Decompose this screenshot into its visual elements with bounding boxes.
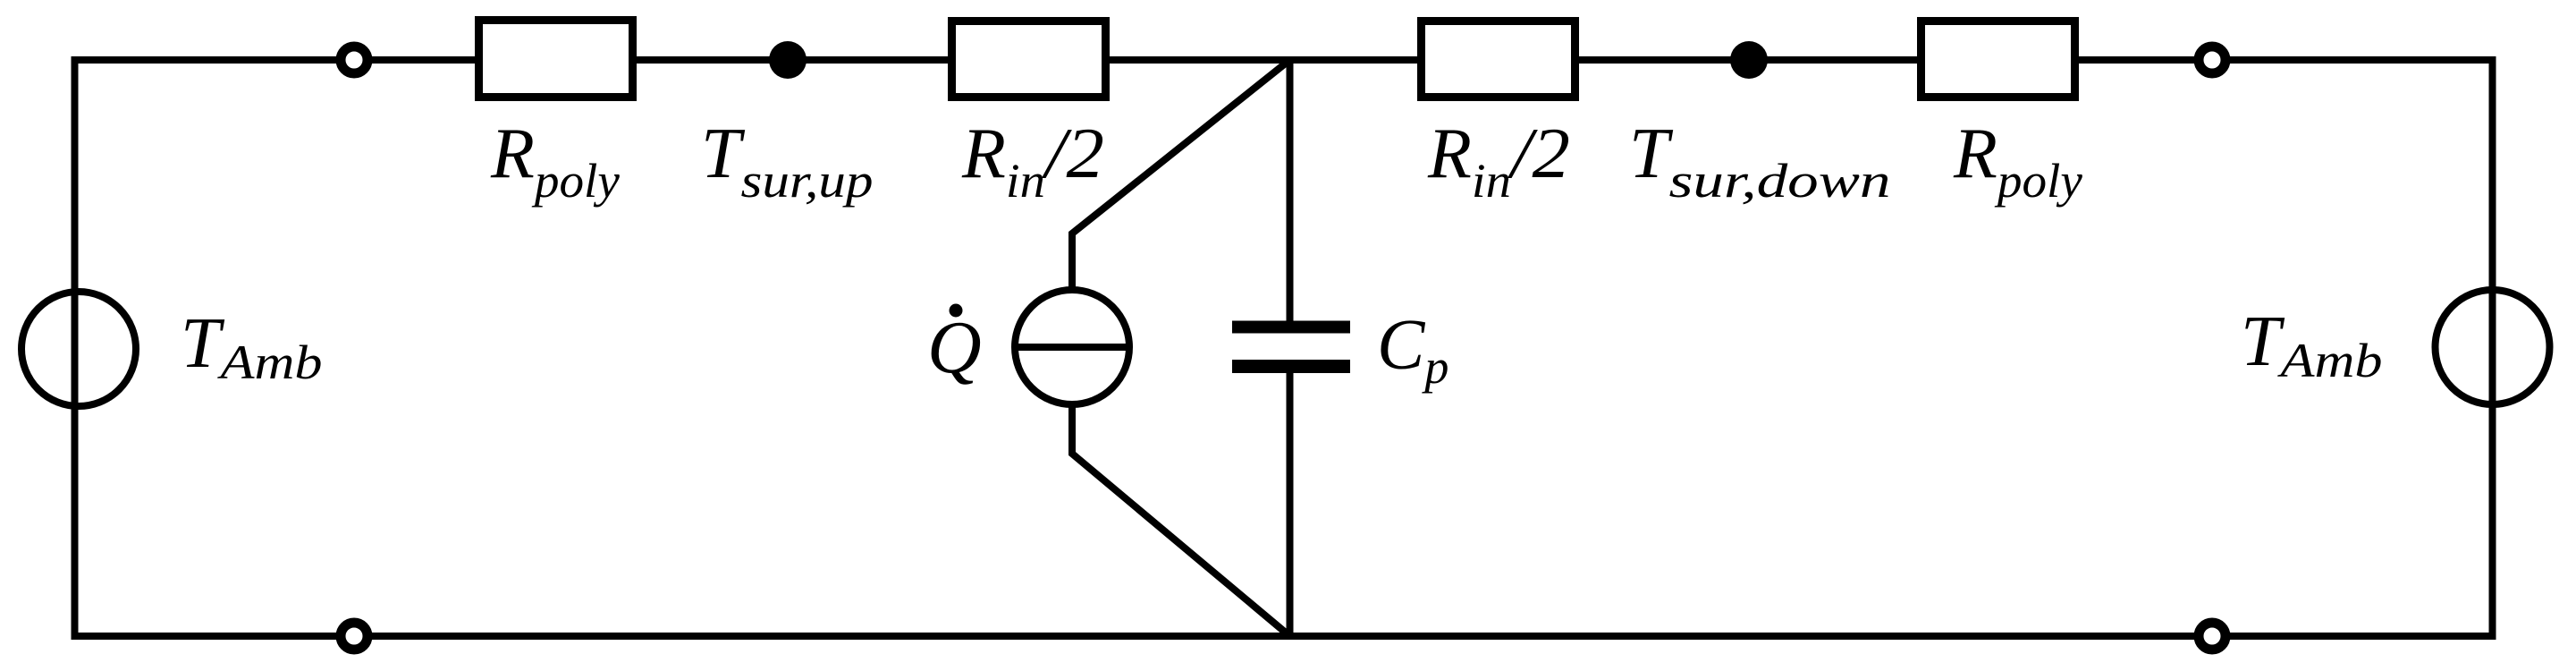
node: open terminal bottom-left: [341, 623, 367, 650]
svg-text:Rin/2: Rin/2: [961, 115, 1104, 208]
svg-text:Rin/2: Rin/2: [1427, 115, 1570, 208]
svg-text:Rpoly: Rpoly: [490, 115, 620, 208]
resistor R_in/2 (left) box: [952, 21, 1106, 98]
wire: center vertical from top junction to capacitor top plate: [1287, 60, 1294, 327]
svg-text:Rpoly: Rpoly: [1953, 115, 2082, 208]
node: open terminal bottom-right: [2199, 623, 2225, 650]
heat source Q horizontal bar: [1015, 344, 1129, 351]
svg-text:Tsur,down: Tsur,down: [1629, 115, 1891, 208]
capacitor C_p top plate: [1232, 321, 1350, 334]
wire: diagonal from heat source bottom to bottom junction: [1072, 401, 1290, 636]
node T_sur,down junction dot: [1730, 41, 1768, 79]
svg-text:Cp: Cp: [1377, 306, 1448, 394]
heat source Q circle: [1015, 290, 1129, 404]
wire: center vertical from capacitor bottom plate to bottom rail: [1287, 366, 1294, 636]
node: open terminal top-left: [341, 47, 367, 73]
resistor R_poly (left) box: [479, 21, 633, 98]
svg-text:TAmb: TAmb: [181, 304, 323, 389]
capacitor C_p bottom plate: [1232, 360, 1350, 373]
temperature source T_Amb (left) circle: [21, 292, 136, 406]
svg-text:Tsur,up: Tsur,up: [701, 115, 874, 208]
node T_sur,up junction dot: [769, 41, 807, 79]
svg-text:TAmb: TAmb: [2241, 302, 2383, 387]
wire: diagonal from top junction to heat source top: [1072, 60, 1290, 293]
resistor R_in/2 (right) box: [1422, 21, 1575, 98]
svg-text:Q: Q: [927, 306, 982, 389]
node: open terminal top-right: [2199, 47, 2225, 73]
temperature source T_Amb (right) circle: [2436, 290, 2550, 404]
resistor R_poly (right) box: [1921, 21, 2075, 98]
